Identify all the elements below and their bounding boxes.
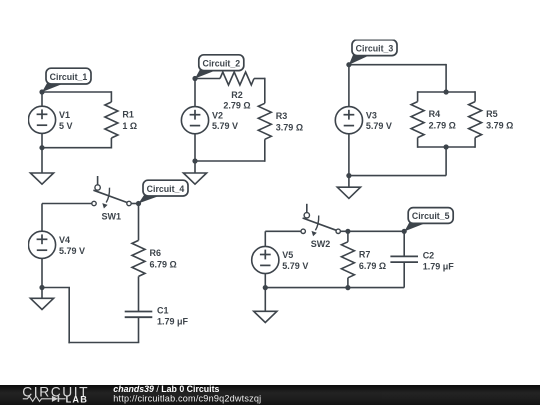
voltage source V4 <box>28 231 85 258</box>
svg-text:5.79 V: 5.79 V <box>282 261 308 271</box>
svg-text:V2: V2 <box>212 110 223 120</box>
node c4 bottom-left <box>39 285 44 290</box>
node c2 top-left <box>192 76 197 81</box>
wire c3 left upper <box>348 65 350 107</box>
node c5 R7 bottom junction <box>345 285 350 290</box>
svg-text:5.79 V: 5.79 V <box>59 246 85 256</box>
voltage source V3 <box>335 107 392 134</box>
wire c2 bottom <box>195 160 265 162</box>
svg-text:2.79 Ω: 2.79 Ω <box>429 121 456 131</box>
voltage source V2 <box>181 107 238 134</box>
wire c3 feed down <box>445 64 447 92</box>
wire c5 top left <box>265 230 301 232</box>
resistor R3 <box>258 103 303 139</box>
node c3 bottom-left <box>346 173 351 178</box>
wire c3 bottom <box>349 175 446 177</box>
wire c5 bottom <box>265 287 404 289</box>
switch SW2 <box>301 204 340 249</box>
wire c3 left lower <box>348 134 350 176</box>
net label Circuit_2 callout <box>195 55 244 79</box>
resistor R4 <box>411 102 456 138</box>
svg-text:LAB: LAB <box>66 395 88 405</box>
svg-text:Circuit_4: Circuit_4 <box>147 184 185 194</box>
svg-text:Circuit_1: Circuit_1 <box>50 72 88 82</box>
net label Circuit_1 callout <box>42 68 91 92</box>
wire c2 right lower <box>264 139 266 162</box>
ground circuit 4 <box>30 298 53 309</box>
wire c3 top <box>349 64 446 66</box>
svg-text:Circuit_3: Circuit_3 <box>356 43 394 53</box>
wire c1 bottom <box>42 147 111 149</box>
svg-text:R1: R1 <box>122 110 134 120</box>
svg-text:V4: V4 <box>59 235 70 245</box>
svg-text:R7: R7 <box>359 249 371 259</box>
resistor R2 <box>220 72 254 110</box>
wire c1 right lower <box>110 138 112 149</box>
resistor R1 <box>105 102 137 138</box>
voltage source V5 <box>252 246 309 273</box>
svg-text:6.79 Ω: 6.79 Ω <box>150 259 177 269</box>
wire c4 R6 lead up <box>138 204 140 241</box>
svg-text:Circuit_5: Circuit_5 <box>412 211 450 221</box>
wire c4 R6 to C1 <box>138 276 140 311</box>
ground circuit 2 <box>183 173 206 184</box>
resistor R6 <box>132 240 177 276</box>
svg-text:3.79 Ω: 3.79 Ω <box>276 122 303 132</box>
wire c4 left lower <box>41 258 43 287</box>
svg-text:http://circuitlab.com/c9n9q2dw: http://circuitlab.com/c9n9q2dwtszqj <box>113 394 261 404</box>
node c1 bottom-left <box>39 145 44 150</box>
node c1 top-left <box>39 89 44 94</box>
svg-text:SW2: SW2 <box>311 239 331 249</box>
wire c3 R5 lead down <box>474 138 476 148</box>
wire c5 ground lead <box>264 288 266 312</box>
wire c2 ground lead <box>194 161 196 173</box>
node c2 bottom-left <box>192 158 197 163</box>
node c5 C2 top junction <box>402 229 407 234</box>
net label Circuit_5 callout <box>404 208 453 232</box>
voltage source V1 <box>28 106 72 133</box>
wire c2 left lower <box>194 134 196 161</box>
wire c3 R4 lead down <box>417 138 419 148</box>
wire c2 top right <box>254 78 265 80</box>
wire c3 split top <box>418 91 476 93</box>
svg-text:5 V: 5 V <box>59 121 73 131</box>
node c5 R7 top junction <box>345 229 350 234</box>
node c3 split top junction <box>444 89 449 94</box>
wire c2 right upper <box>264 78 266 104</box>
svg-text:2.79 Ω: 2.79 Ω <box>223 100 250 110</box>
wire c5 R7 lead up <box>347 231 349 242</box>
svg-text:V1: V1 <box>59 110 70 120</box>
svg-text:V5: V5 <box>282 250 293 260</box>
ground circuit 5 <box>254 311 277 322</box>
node c5 bottom-left <box>263 285 268 290</box>
node c3 top-left <box>346 62 351 67</box>
svg-text:chands39 / Lab 0 Circuits: chands39 / Lab 0 Circuits <box>113 385 219 394</box>
wire c4 switch to node <box>131 203 138 205</box>
wire c4 return left <box>42 287 70 289</box>
svg-text:C1: C1 <box>157 305 169 315</box>
ground circuit 1 <box>30 173 53 184</box>
resistor R7 <box>341 242 386 278</box>
wire c4 ground lead <box>41 288 43 299</box>
wire c1 ground lead <box>41 148 43 173</box>
wire c1 left upper <box>41 92 43 106</box>
svg-text:1 Ω: 1 Ω <box>122 121 137 131</box>
net label Circuit_3 callout <box>349 40 397 65</box>
svg-text:1.79 μF: 1.79 μF <box>423 262 455 272</box>
wire c1 top <box>42 91 111 93</box>
svg-text:Circuit_2: Circuit_2 <box>202 58 240 68</box>
net label Circuit_4 callout <box>139 180 189 203</box>
svg-text:R5: R5 <box>486 109 498 119</box>
wire c1 right upper <box>110 91 112 102</box>
wire c4 return up <box>68 288 70 344</box>
wire c4 bottom <box>68 342 139 344</box>
svg-text:R2: R2 <box>231 90 243 100</box>
wire c4 C1 lead down <box>138 317 140 342</box>
svg-text:6.79 Ω: 6.79 Ω <box>359 261 386 271</box>
wire c4 top <box>42 203 92 205</box>
wire c3 split bottom <box>418 146 476 148</box>
wire c2 top left <box>195 78 220 80</box>
wire c5 switch to R7 <box>340 230 348 232</box>
switch SW1 <box>92 176 131 221</box>
wire c2 left upper <box>194 79 196 107</box>
svg-text:C2: C2 <box>423 250 435 260</box>
svg-text:R4: R4 <box>429 109 441 119</box>
svg-text:V3: V3 <box>366 110 377 120</box>
wire c1 left lower <box>41 133 43 147</box>
wire c5 left upper <box>264 231 266 246</box>
node c4 switch junction <box>136 201 141 206</box>
wire c3 return down <box>445 147 447 176</box>
capacitor C1 <box>125 305 189 326</box>
wire c5 R7 lead down <box>347 278 349 288</box>
wire c3 R5 lead up <box>474 91 476 101</box>
wire c5 C2 lead up <box>403 231 405 257</box>
svg-text:SW1: SW1 <box>102 211 122 221</box>
wire c4 left upper <box>41 204 43 232</box>
wire c3 R4 lead up <box>417 91 419 101</box>
svg-text:5.79 V: 5.79 V <box>212 121 238 131</box>
wire c3 ground lead <box>348 176 350 188</box>
svg-text:3.79 Ω: 3.79 Ω <box>486 121 513 131</box>
svg-text:R3: R3 <box>276 111 288 121</box>
wire c5 C2 lead down <box>403 262 405 288</box>
svg-text:1.79 μF: 1.79 μF <box>157 317 189 327</box>
CircuitLab logo resistor-diode glyph <box>23 396 66 402</box>
ground circuit 3 <box>337 187 360 198</box>
capacitor C2 <box>390 250 454 271</box>
node c3 split bottom junction <box>444 144 449 149</box>
svg-text:R6: R6 <box>150 248 162 258</box>
resistor R5 <box>469 102 514 138</box>
wire c5 top right <box>348 230 404 232</box>
wire c5 left lower <box>264 274 266 288</box>
svg-text:5.79 V: 5.79 V <box>366 121 392 131</box>
